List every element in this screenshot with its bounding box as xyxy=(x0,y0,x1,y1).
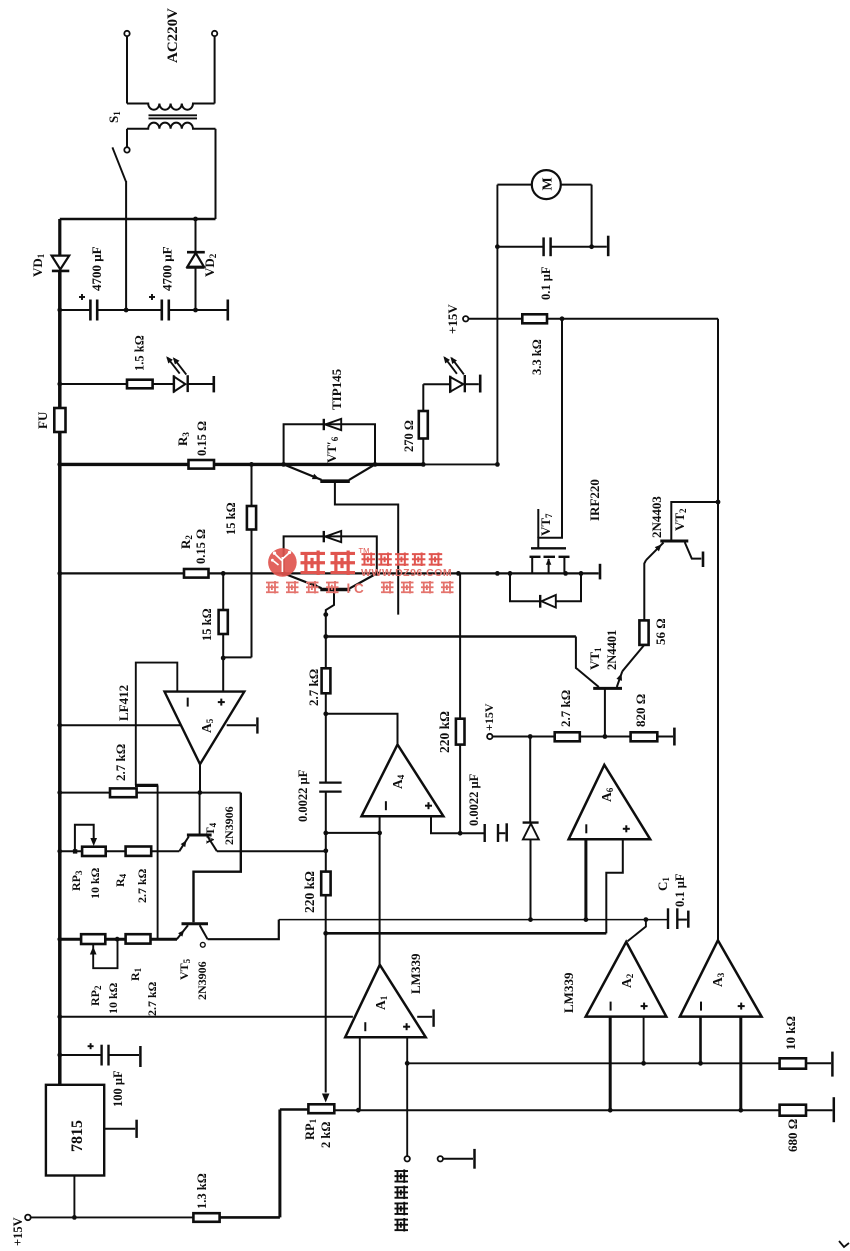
ground aux terminal xyxy=(443,1158,473,1160)
svg-text:15 kΩ: 15 kΩ xyxy=(200,608,214,641)
resistor 2.7k mid xyxy=(322,668,331,693)
wire motor right column xyxy=(591,185,593,247)
junction MOSFET source xyxy=(508,571,513,576)
artifact small circle xyxy=(200,942,205,947)
junction 100uF row xyxy=(57,1053,62,1058)
wire R4 to VT4 xyxy=(151,850,179,852)
svg-text:AC220V: AC220V xyxy=(165,8,181,63)
junction stage2 left xyxy=(281,571,286,576)
wire VT5 base route xyxy=(194,793,241,923)
wire A5 minus lead xyxy=(136,663,178,786)
svg-text:VT4: VT4 xyxy=(203,822,218,844)
node aux terminal xyxy=(438,1156,443,1161)
svg-text:FU: FU xyxy=(35,411,50,429)
diode D-VT6b xyxy=(323,531,325,542)
svg-text:A5: A5 xyxy=(199,718,215,733)
svg-text:10 kΩ: 10 kΩ xyxy=(88,867,102,899)
MOSFET VT7 symbol xyxy=(531,547,566,549)
wire A6 minus input xyxy=(584,839,587,919)
ground cap row xyxy=(196,309,227,311)
wire A3 minus lead xyxy=(699,1017,702,1064)
junction VT6 left xyxy=(281,462,286,467)
resistor 56ohm xyxy=(639,620,648,645)
svg-text:RP3: RP3 xyxy=(69,870,84,891)
svg-text:VD2: VD2 xyxy=(202,253,218,277)
junction A5 power at bus xyxy=(57,723,62,728)
diode D-VT6 xyxy=(323,419,325,430)
diode VD1 xyxy=(52,256,70,270)
wire RP1 right to comparators xyxy=(334,1109,779,1111)
wire RP1 wiper arrow xyxy=(322,1094,330,1103)
svg-text:WWW.DZ96.COM: WWW.DZ96.COM xyxy=(361,567,452,579)
wire RP3 row xyxy=(60,850,82,852)
svg-text:RP2: RP2 xyxy=(88,985,103,1006)
junction A6 minus at line A xyxy=(584,917,589,922)
svg-text:680 Ω: 680 Ω xyxy=(785,1119,800,1152)
transistor VT4 xyxy=(187,834,212,837)
resistor R3 0.15ohm xyxy=(189,460,215,469)
svg-text:+15V: +15V xyxy=(11,1217,25,1246)
junction integrator node xyxy=(377,831,382,836)
resistor 270ohm branch xyxy=(421,462,426,467)
junction 0.0022 #2 row xyxy=(458,831,463,836)
junction A2 plus xyxy=(641,1061,646,1066)
junction RP2 row left xyxy=(57,937,62,942)
junction filter midpoint xyxy=(124,308,129,313)
svg-text:A3: A3 xyxy=(710,972,726,987)
svg-text:4700 μF: 4700 μF xyxy=(160,246,175,291)
junction zener column xyxy=(528,734,533,739)
svg-text:2.7 kΩ: 2.7 kΩ xyxy=(145,981,159,1016)
svg-text:LM339: LM339 xyxy=(408,953,423,994)
wire 7815 output pin xyxy=(73,1176,75,1218)
ground 820ohm xyxy=(657,736,673,738)
watermark logo circle xyxy=(268,548,297,577)
wire 2.7k A5 row xyxy=(60,792,110,794)
wire 56ohm to VT1 emitter xyxy=(622,645,644,671)
ground A1 xyxy=(417,1016,432,1018)
junction 15k2 column top xyxy=(221,571,226,576)
svg-text:R3: R3 xyxy=(175,432,191,446)
node AC terminal right xyxy=(212,31,217,36)
wire A3 plus lead xyxy=(739,1017,742,1111)
junction R2 row at left bus xyxy=(57,571,62,576)
transistor VT6 stage1 xyxy=(284,464,322,480)
junction VT6 right xyxy=(373,462,378,467)
capacitor 0.1uF motor xyxy=(497,246,543,248)
junction R2bus at 220k column xyxy=(456,571,461,576)
wire cap2 to VD2 node xyxy=(169,309,196,311)
svg-text:R2: R2 xyxy=(178,535,194,549)
wire bottom row xyxy=(31,1216,194,1218)
junction 2.7k A5 row left xyxy=(57,790,62,795)
capacitor 0.0022uF #2 xyxy=(460,832,484,834)
wire VD1 anode lead xyxy=(58,219,61,255)
svg-text:TIP145: TIP145 xyxy=(329,368,344,410)
wire secondary right down xyxy=(215,129,217,219)
op-amp A4 xyxy=(362,745,444,817)
wire VT7 gate route xyxy=(538,319,562,548)
wire LED row xyxy=(60,383,127,385)
wire RP2 row xyxy=(60,938,82,941)
wire main bus R3 row xyxy=(60,463,424,466)
wire VT2 emitter to 56ohm xyxy=(644,560,646,620)
svg-text:VT1: VT1 xyxy=(587,647,603,670)
ground 680ohm xyxy=(806,1109,832,1111)
wire secondary left to switch xyxy=(126,129,128,147)
junction cap row left xyxy=(57,308,62,313)
wire zener column bottom xyxy=(530,839,532,919)
wire AC right lead xyxy=(214,36,216,103)
resistor 10k xyxy=(780,1058,806,1068)
wire mid column xyxy=(325,615,327,669)
junction bus1 left xyxy=(57,462,62,467)
wire VT2 base to right bus xyxy=(671,502,718,540)
wire A2 output link xyxy=(628,920,646,942)
wire A6 output up xyxy=(603,764,605,766)
wire filter cap row xyxy=(60,309,90,311)
motor M xyxy=(497,184,531,186)
junction R2bus at motor column xyxy=(495,571,500,576)
wire drive line to mid column xyxy=(326,635,576,638)
wire R1 to VT5 xyxy=(151,938,178,941)
resistor 15k #1 xyxy=(251,464,253,506)
junction MOSFET drain xyxy=(579,571,584,576)
junction RP1 output xyxy=(356,1108,361,1113)
node +15V bottom terminal xyxy=(25,1215,31,1221)
junction VT2 base at right bus xyxy=(716,500,721,505)
artifact corner mark xyxy=(839,1241,849,1247)
wire A2 minus lead xyxy=(609,1017,612,1111)
wire comparator output line A xyxy=(279,919,668,921)
svg-text:A1: A1 xyxy=(373,995,389,1010)
diode VD2 xyxy=(195,219,197,252)
wire top rectifier bus xyxy=(60,218,216,220)
wire 3.3k to right bus xyxy=(547,318,718,320)
ground A5 xyxy=(227,724,256,726)
svg-text:A4: A4 xyxy=(390,774,406,789)
svg-text:1.5 kΩ: 1.5 kΩ xyxy=(133,335,147,371)
wire VT5 collector staircase xyxy=(208,920,279,940)
transistor VT5 xyxy=(182,922,209,925)
resistor 820ohm xyxy=(631,732,658,741)
op-amp A1 LM339 xyxy=(345,965,426,1037)
node +15V mid terminal xyxy=(487,734,492,739)
junction line B start xyxy=(323,931,328,936)
label control-signal (kongzhi xinhao) xyxy=(395,1219,409,1221)
wire to LED1 xyxy=(153,383,174,385)
watermark weiku big chars xyxy=(301,552,326,555)
wire +15V row xyxy=(468,318,522,320)
wire AC left lead xyxy=(126,36,128,103)
node +15V top terminal xyxy=(463,316,468,321)
wire A6 plus input jog xyxy=(606,839,623,933)
junction A3 minus xyxy=(698,1061,703,1066)
capacitor C 4700uF #1 xyxy=(89,300,92,321)
wire 15k1 to A5 plus xyxy=(223,656,251,658)
wire main left bus (VD1 to 7815) xyxy=(58,271,62,1085)
svg-text:2N4403: 2N4403 xyxy=(649,496,664,538)
svg-text:RP1: RP1 xyxy=(303,1118,318,1140)
junction drive line xyxy=(323,634,328,639)
svg-text:2.7 kΩ: 2.7 kΩ xyxy=(135,868,149,903)
resistor 680ohm xyxy=(780,1105,806,1116)
svg-text:820 Ω: 820 Ω xyxy=(633,694,648,727)
potentiometer RP3 xyxy=(82,847,106,856)
junction VT4 collector row xyxy=(323,848,328,853)
watermark logo glyph xyxy=(274,554,289,573)
junction RP2 wiper xyxy=(115,937,120,942)
svg-text:A2: A2 xyxy=(619,973,635,988)
resistor R1 xyxy=(126,934,151,943)
svg-text:0.0022 μF: 0.0022 μF xyxy=(296,769,310,822)
svg-text:3.3 kΩ: 3.3 kΩ xyxy=(530,339,544,375)
svg-text:R1: R1 xyxy=(128,967,143,981)
resistor 2.7k A5 xyxy=(110,788,137,797)
diode VT6 protection loop xyxy=(284,424,375,464)
svg-text:0.15 Ω: 0.15 Ω xyxy=(195,421,209,456)
svg-text:VT5: VT5 xyxy=(177,958,192,980)
wire main bus R2 row xyxy=(60,572,599,574)
capacitor 100uF xyxy=(60,1054,101,1056)
junction integrator row left xyxy=(323,831,328,836)
svg-text:LF412: LF412 xyxy=(116,685,131,721)
label VT7 xyxy=(537,509,539,538)
LED VL2 xyxy=(423,383,450,385)
wire thick tie bar xyxy=(135,784,158,787)
svg-text:56 Ω: 56 Ω xyxy=(653,618,668,645)
wire reference row xyxy=(407,1062,779,1064)
wire VT6 base route xyxy=(335,482,398,615)
wire feedback column x=157.6 xyxy=(157,785,159,939)
LED VL1 xyxy=(173,375,175,392)
op-amp A5 LF412 xyxy=(165,692,245,765)
wire RP1 left xyxy=(280,1108,309,1110)
watermark dianzishichang chars xyxy=(362,553,376,555)
node control signal terminal xyxy=(405,1156,410,1161)
op-amp A3 xyxy=(680,940,762,1016)
transistor VT6 stage2 xyxy=(284,573,322,588)
svg-text:1.3 kΩ: 1.3 kΩ xyxy=(195,1173,209,1209)
junction A5 plus node xyxy=(221,656,226,661)
wire RP3 to R4 xyxy=(106,850,126,852)
wire A1 plus lead xyxy=(406,1037,408,1156)
junction stage2 right xyxy=(374,571,379,576)
svg-text:220 kΩ: 220 kΩ xyxy=(302,871,317,913)
svg-text:+15V: +15V xyxy=(445,304,460,334)
svg-text:0.1 μF: 0.1 μF xyxy=(539,266,553,300)
resistor 220k #2 xyxy=(459,573,461,718)
svg-text:7815: 7815 xyxy=(69,1120,86,1152)
wire motor left column xyxy=(496,185,498,465)
wire VT4 base xyxy=(199,793,201,834)
svg-text:VT2: VT2 xyxy=(672,508,688,531)
svg-text:IRF220: IRF220 xyxy=(587,479,602,521)
resistor R4 xyxy=(126,847,152,856)
svg-text:2.7 kΩ: 2.7 kΩ xyxy=(306,669,321,706)
wire A1 minus lead xyxy=(359,1037,361,1110)
svg-text:C1: C1 xyxy=(655,877,671,891)
svg-text:+15V: +15V xyxy=(482,703,496,731)
resistor 220k #1 xyxy=(321,872,330,896)
junction VT1 base node xyxy=(603,734,608,739)
junction A4 out at mid column xyxy=(323,711,328,716)
svg-text:2N4401: 2N4401 xyxy=(605,630,619,670)
wire between 2.7k and 820 xyxy=(580,736,631,738)
wire A4 plus link xyxy=(431,816,460,833)
transistor VT2 xyxy=(660,540,688,543)
wire bias row xyxy=(492,736,554,738)
svg-text:220 kΩ: 220 kΩ xyxy=(437,711,452,753)
wire A5 output xyxy=(199,764,201,792)
regulator 7815 xyxy=(46,1085,104,1176)
junction VD2 top xyxy=(193,217,198,222)
junction 15k column top xyxy=(249,462,254,467)
junction A5 output row xyxy=(197,790,202,795)
svg-text:VT7: VT7 xyxy=(538,513,554,536)
wire ramp line B xyxy=(326,932,607,935)
svg-text:2N3906: 2N3906 xyxy=(195,961,209,1000)
svg-text:100 μF: 100 μF xyxy=(111,1070,125,1107)
svg-text:2.7 kΩ: 2.7 kΩ xyxy=(558,690,573,727)
node AC terminal left xyxy=(124,31,129,36)
fuse FU xyxy=(54,408,65,432)
junction A1 power at bus xyxy=(57,1014,62,1019)
svg-text:270 Ω: 270 Ω xyxy=(402,420,416,452)
svg-text:2 kΩ: 2 kΩ xyxy=(319,1122,333,1148)
resistor R2 0.15ohm xyxy=(184,569,209,578)
wire A1 power row xyxy=(60,1016,353,1018)
svg-text:S1: S1 xyxy=(106,111,122,123)
junction RP3 row left xyxy=(57,849,62,854)
wire 1.3k to RP1 column xyxy=(220,1216,280,1219)
svg-text:2N3906: 2N3906 xyxy=(222,806,236,845)
wire stage2 emitter to mid column xyxy=(326,591,334,615)
resistor 15k #2 xyxy=(222,573,224,610)
ground 7815 xyxy=(104,1128,135,1130)
wire A5 power row xyxy=(60,724,181,726)
svg-text:A6: A6 xyxy=(599,787,615,802)
wire switch to filter caps midpoint xyxy=(125,181,127,310)
diode zener xyxy=(523,821,539,823)
wire VT1 base xyxy=(604,688,606,736)
transistor VT1 xyxy=(593,687,622,690)
junction A3 plus xyxy=(738,1108,743,1113)
junction bus1 right end xyxy=(495,462,500,467)
svg-text:I C: I C xyxy=(347,581,365,596)
transistor VT6 stage2 diode loop xyxy=(284,536,377,573)
wire A4 output up xyxy=(326,714,398,745)
diode VT7 body xyxy=(510,573,540,601)
junction A2 minus xyxy=(608,1108,613,1113)
op-amp A2 LM339 xyxy=(586,942,667,1017)
wire VT1 collector route xyxy=(576,637,578,670)
svg-text:VT′6: VT′6 xyxy=(324,436,340,463)
svg-text:2.7 kΩ: 2.7 kΩ xyxy=(113,744,128,781)
junction zener at line A xyxy=(528,917,533,922)
svg-text:LM339: LM339 xyxy=(561,972,576,1013)
junction A1 plus at row xyxy=(405,1061,410,1066)
capacitor 0.0022uF mid xyxy=(319,781,341,783)
op-amp A6 xyxy=(569,765,651,839)
junction cap row at VD2 xyxy=(193,308,198,313)
resistor 2.7k bias xyxy=(555,732,580,741)
wire RP2 to R1 xyxy=(105,938,125,941)
capacitor C 4700uF #2 xyxy=(126,309,162,311)
transformer T core xyxy=(149,114,198,116)
junction VT7 gate column xyxy=(560,316,565,321)
junction LED row left xyxy=(57,382,62,387)
wire RP1 thick column xyxy=(278,1110,281,1218)
junction MOSFET mid xyxy=(563,571,568,576)
junction mid column base node xyxy=(323,612,328,617)
transformer T primary winding xyxy=(127,104,215,110)
potentiometer RP2 xyxy=(81,934,105,944)
svg-text:10 kΩ: 10 kΩ xyxy=(783,1016,798,1050)
potentiometer RP1 xyxy=(308,1104,334,1113)
wire A2 plus lead xyxy=(643,1017,645,1064)
ground MOSFET row xyxy=(599,564,602,580)
svg-text:0.0022 μF: 0.0022 μF xyxy=(467,773,481,826)
watermark bottom slogan xyxy=(266,582,279,584)
wire cap1 to midpoint xyxy=(97,309,126,311)
wire RP2 wiper loop xyxy=(93,939,117,968)
resistor 1.5k xyxy=(127,380,153,389)
resistor 3.3k xyxy=(522,314,547,323)
svg-text:0.15 Ω: 0.15 Ω xyxy=(194,529,208,564)
wire RP3 wiper loop xyxy=(73,849,77,853)
junction 7815 output xyxy=(72,1215,77,1220)
wire right bus xyxy=(717,319,719,941)
wire zener column top xyxy=(529,737,531,823)
svg-text:15 kΩ: 15 kΩ xyxy=(224,502,238,535)
wire A4 minus / A1 out column xyxy=(379,816,381,964)
switch S1 xyxy=(124,147,129,152)
ground 10k xyxy=(806,1062,831,1064)
wire integrator row xyxy=(326,832,380,834)
svg-text:M: M xyxy=(541,177,556,190)
svg-text:VD1: VD1 xyxy=(30,253,46,277)
capacitor C1 xyxy=(667,908,669,929)
svg-text:10 kΩ: 10 kΩ xyxy=(106,982,120,1014)
svg-text:0.1 μF: 0.1 μF xyxy=(673,873,687,907)
wire VT4 collector row xyxy=(217,850,326,852)
transformer T secondary winding xyxy=(127,123,216,129)
svg-text:4700 μF: 4700 μF xyxy=(89,246,104,291)
svg-text:R4: R4 xyxy=(113,873,128,887)
resistor 1.3k xyxy=(193,1213,219,1222)
junction C1 at line A xyxy=(644,917,649,922)
